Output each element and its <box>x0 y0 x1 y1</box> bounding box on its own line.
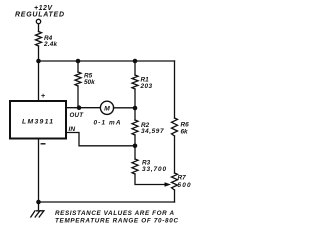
svg-text:0-1 mA: 0-1 mA <box>94 120 121 127</box>
wire R3 top lead <box>134 146 136 159</box>
svg-text:LM3911: LM3911 <box>22 118 53 125</box>
junction node R1/R2/meter <box>133 106 138 111</box>
wire bottom rail <box>39 201 175 203</box>
wire top rail <box>39 60 175 62</box>
svg-text:+: + <box>41 91 46 100</box>
wire R2 top lead <box>134 108 136 120</box>
junction node R1/rail <box>133 59 138 64</box>
R4 value label 2.4k <box>43 35 57 48</box>
meter M1 circle <box>100 101 113 114</box>
R7 value label 500 <box>178 175 191 190</box>
svg-text:RESISTANCE VALUES ARE FOR A: RESISTANCE VALUES ARE FOR A <box>55 210 174 217</box>
wire R7 to bottom rail <box>174 190 176 202</box>
node +12V REGULATED label <box>15 5 64 19</box>
wire OUT pin to meter <box>67 107 101 109</box>
junction node R4/rail <box>36 59 41 64</box>
wire R2 bottom lead <box>134 135 136 146</box>
wire R5 top lead <box>77 61 79 72</box>
junction node OUT/R5 <box>77 105 82 110</box>
wire meter to R1/R2 node <box>114 107 136 109</box>
svg-text:REGULATED: REGULATED <box>15 12 64 19</box>
wire R1 top lead <box>134 61 136 75</box>
wiper arrowhead into R7 <box>165 182 172 187</box>
junction node R2/R3/IN <box>133 144 138 149</box>
resistor R4 <box>36 32 42 47</box>
wire R5 bottom lead to OUT node <box>77 86 79 108</box>
pin label OUT <box>70 112 85 119</box>
pin label + <box>41 91 46 100</box>
wire R4 to top rail <box>38 46 40 61</box>
R6 value label 6k <box>181 122 190 136</box>
R3 value label 33,700 <box>142 159 166 173</box>
svg-text:203: 203 <box>140 83 153 90</box>
junction node R5/rail <box>76 59 81 64</box>
wire R1 bottom lead to meter node <box>134 89 136 108</box>
ground (chassis) <box>31 202 44 217</box>
svg-text:OUT: OUT <box>70 112 85 119</box>
svg-text:R6: R6 <box>181 122 190 129</box>
wire right branch top (rail to R6) <box>174 61 176 118</box>
resistor R1 <box>132 75 138 89</box>
resistor R5 <box>75 72 81 86</box>
wire LM3911 - pin down to bottom rail <box>38 139 40 202</box>
R1 value label 203 <box>140 76 153 90</box>
wire rail to LM3911 + pin <box>38 61 40 101</box>
wire terminal to R4 <box>38 24 40 32</box>
+12V input terminal <box>36 19 40 23</box>
svg-text:M: M <box>104 105 110 112</box>
svg-text:R7: R7 <box>178 175 187 182</box>
resistor R3 <box>132 159 138 174</box>
note text <box>55 210 178 225</box>
pin label - <box>41 143 45 145</box>
resistor R2 <box>132 120 138 135</box>
wire R6 to R7 <box>174 136 176 173</box>
svg-text:34,597: 34,597 <box>141 128 164 135</box>
svg-text:2.4k: 2.4k <box>43 41 57 48</box>
svg-text:500: 500 <box>178 182 191 189</box>
IC U1 LM3911 <box>10 101 66 139</box>
resistor R6 <box>172 118 178 136</box>
junction node ground <box>36 200 41 205</box>
svg-text:TEMPERATURE RANGE OF 70-80C: TEMPERATURE RANGE OF 70-80C <box>55 217 178 224</box>
R5 value label 50k <box>84 73 95 86</box>
svg-text:6k: 6k <box>181 129 189 136</box>
svg-text:50k: 50k <box>84 79 95 86</box>
wire IN pin to R2/R3 node <box>67 133 136 146</box>
R2 value label 34,597 <box>141 122 164 135</box>
pin label IN <box>69 126 76 133</box>
svg-text:33,700: 33,700 <box>142 166 166 173</box>
meter label 0-1 mA <box>94 120 121 127</box>
wire R3 bottom to R7 wiper <box>135 174 167 185</box>
potentiometer R7 <box>172 173 178 190</box>
